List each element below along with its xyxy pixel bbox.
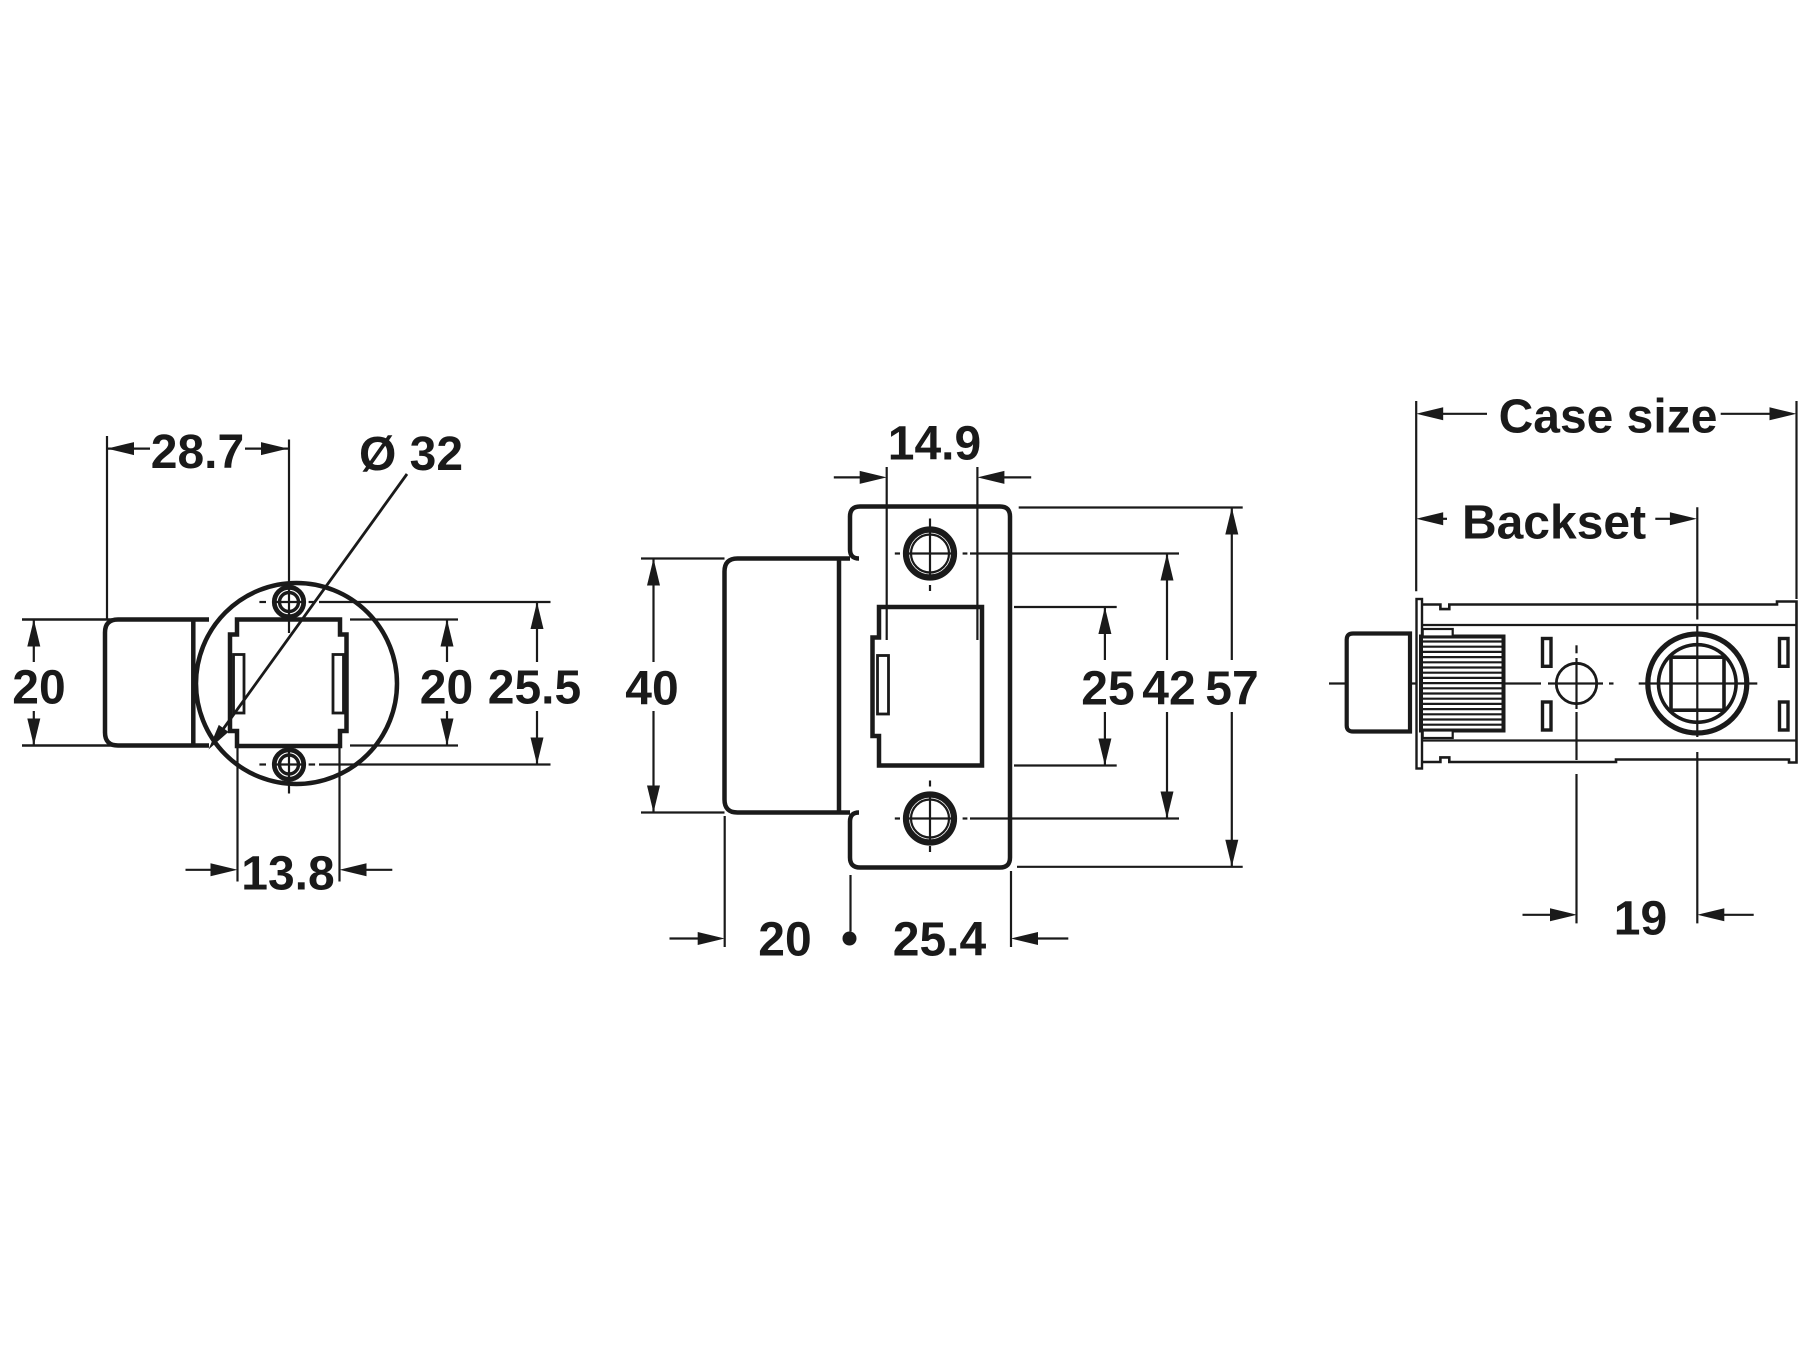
- svg-text:Backset: Backset: [1462, 497, 1646, 550]
- svg-text:28.7: 28.7: [151, 426, 244, 479]
- middle view: centerline dashes: [929, 519, 931, 853]
- svg-text:20: 20: [12, 662, 65, 715]
- right view: case inner edges: [1423, 625, 1797, 741]
- svg-text:19: 19: [1614, 893, 1667, 946]
- dimension 20 (left view, tube height): [12, 620, 118, 746]
- left view: rosette circle (Ø32): [196, 583, 397, 784]
- middle view: screw hole bottom: [895, 795, 1179, 843]
- dimension 14.9 (middle view top): [834, 418, 1031, 641]
- svg-text:57: 57: [1205, 663, 1258, 716]
- right view: faceplate: [1417, 599, 1423, 769]
- middle view: latch opening: [873, 607, 983, 766]
- reference dot and line: [843, 875, 857, 946]
- right view: latch bolt: [1347, 634, 1410, 732]
- left view: vertical centerline: [288, 440, 290, 794]
- svg-text:20: 20: [420, 662, 473, 715]
- left view: screw hole top: [259, 587, 315, 616]
- dimension 25.5 (left view, screw spacing): [319, 602, 581, 765]
- right view: follower tab bottom: [1423, 731, 1453, 739]
- right view: case slot top-right: [1780, 639, 1789, 667]
- middle view: dust box: [725, 559, 851, 813]
- right view: fixing hole circle: [1556, 645, 1596, 923]
- dimension Case size: [1416, 391, 1796, 600]
- dimension 25.4 (middle view bottom): [893, 871, 1069, 967]
- svg-text:42: 42: [1142, 663, 1195, 716]
- middle view: strike plate outline: [850, 507, 1010, 868]
- left view: latch bolt square face: [230, 620, 347, 747]
- dimension 25 (opening height): [1014, 607, 1135, 766]
- right view: horizontal centerline: [1329, 682, 1614, 684]
- left view: screw hole bottom: [259, 750, 315, 779]
- right view: spring follower block: [1421, 637, 1504, 731]
- left view: bolt spring clip left: [234, 655, 245, 714]
- dimension 20 (left view, bolt height): [350, 620, 473, 746]
- svg-text:Case size: Case size: [1499, 391, 1718, 444]
- dimension 19: [1523, 893, 1754, 946]
- svg-text:Ø 32: Ø 32: [359, 428, 463, 481]
- svg-text:25.4: 25.4: [893, 914, 987, 967]
- dimension 20 (middle view bottom): [670, 816, 812, 967]
- right view: follower tab top: [1423, 629, 1453, 637]
- svg-text:25: 25: [1081, 663, 1134, 716]
- dimension 28.7 (left view top): [107, 426, 288, 620]
- dimension 40 (middle view left): [625, 559, 724, 813]
- label Ø 32 with leader: [209, 428, 464, 750]
- dimension 13.8 (left view bottom): [186, 748, 393, 901]
- left view: bolt spring clip right: [333, 655, 344, 714]
- right view: spindle hub: [1639, 507, 1758, 923]
- svg-text:13.8: 13.8: [241, 848, 334, 901]
- dimension 57 (plate height): [1017, 508, 1259, 867]
- svg-text:25.5: 25.5: [488, 662, 581, 715]
- left view: latch tube body: [105, 620, 209, 746]
- right view: case slot bottom-right: [1780, 702, 1789, 730]
- right view: case slot bottom-left: [1543, 702, 1552, 730]
- middle view: opening spring clip: [878, 656, 889, 715]
- svg-text:14.9: 14.9: [888, 418, 981, 471]
- dimension 42 (screw spacing): [1142, 554, 1195, 819]
- dimension Backset: [1416, 497, 1697, 550]
- svg-text:20: 20: [758, 914, 811, 967]
- svg-text:40: 40: [625, 663, 678, 716]
- middle view: screw hole top: [895, 530, 1179, 578]
- right view: case outline: [1423, 602, 1797, 763]
- right view: case slot top-left: [1543, 639, 1552, 667]
